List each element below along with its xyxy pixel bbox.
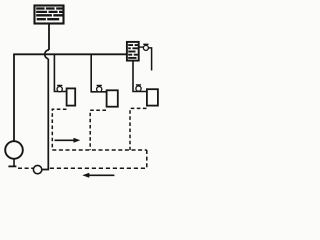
wire: radiator 3 dashed return (130, 108, 147, 150)
radiator R1 (67, 88, 76, 105)
boiler B1 (5, 141, 23, 159)
wire: radiator 1 dashed return (52, 109, 66, 150)
wire: air valve stem (140, 46, 144, 48)
wire: radiator 1 supply drop (54, 54, 67, 91)
wire: radiator 3 supply drop (133, 61, 148, 91)
wire crossover hop (45, 50, 49, 59)
valve V1 (57, 87, 62, 92)
air collector hatch fill (128, 45, 138, 58)
valve V2 (97, 87, 102, 92)
boiler drain bar (8, 165, 16, 167)
flow arrow right (55, 139, 75, 141)
radiator R3 (147, 89, 158, 105)
wire: tank stem (48, 24, 50, 50)
expansion tank T1 (35, 6, 64, 24)
wire: radiator 2 dashed return (90, 110, 106, 150)
wire: dashed return main lower (50, 167, 147, 169)
wire: boiler bottom stem (13, 159, 15, 166)
flow arrow left (89, 174, 115, 176)
radiator R2 (107, 90, 118, 106)
wire: expansion pipe (42, 59, 48, 170)
wire: dashed return boiler to pump (18, 167, 33, 169)
air valve V4 (143, 45, 148, 50)
wire: left riser (13, 54, 15, 141)
expansion tank hatch fill (36, 9, 63, 20)
wire: radiator 2 supply drop (91, 54, 106, 92)
valve V3 (136, 86, 141, 91)
wire: air valve overflow pipe (148, 48, 152, 71)
wire: dashed return right drop (146, 150, 148, 168)
wire: dashed return main upper (52, 149, 147, 151)
air collector T2 (127, 42, 139, 61)
pump P1 (33, 165, 41, 173)
wire: supply main (13, 53, 126, 55)
